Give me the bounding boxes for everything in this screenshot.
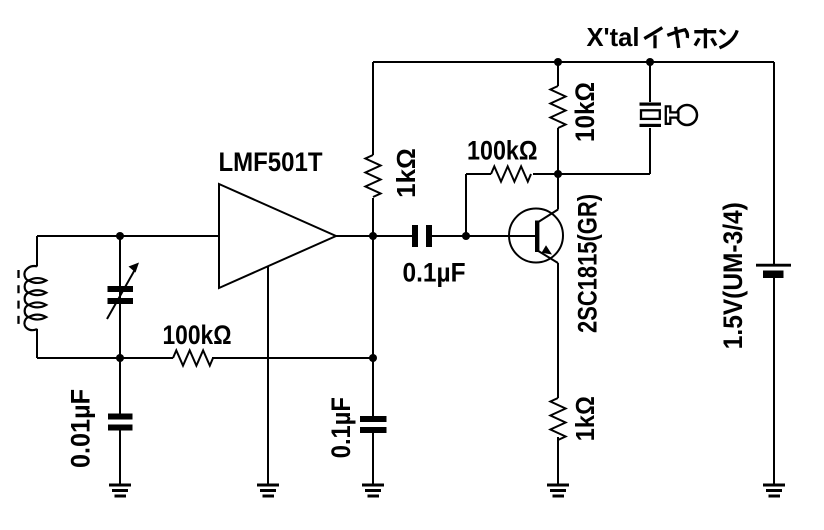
junction dot (120,358) (116, 354, 124, 362)
transistor Q1 base bar (535, 221, 539, 253)
variable capacitor VC1 plates (108, 286, 134, 292)
resistor R5 1kΩ (vertical at x=558) (550, 398, 565, 440)
svg-text:100kΩ: 100kΩ (163, 320, 232, 350)
wire collector (557, 174, 559, 210)
earphone earpiece stem (666, 106, 679, 123)
ground (120,484) (109, 484, 131, 498)
wire emitter down (557, 263, 559, 398)
wire 1k to ground (557, 437, 559, 486)
svg-text:0.1µF: 0.1µF (326, 397, 356, 458)
wire tank top (to amp input) (37, 235, 219, 237)
svg-text:1.5V(UM-3/4): 1.5V(UM-3/4) (718, 202, 748, 349)
wire tank bottom (37, 357, 173, 359)
capacitor C3 0.1µF bypass plates (360, 416, 387, 422)
ground (558,484) (547, 484, 569, 498)
resistor R4 10kΩ (vertical at x=558) (550, 86, 565, 128)
junction dot (650,62) (646, 58, 654, 66)
ground (373,484) (362, 484, 384, 498)
junction dot (120,236) (116, 232, 124, 240)
transistor Q1 emitter arrowhead (542, 245, 553, 254)
wire top bus left drop (to 1k resistor) (372, 62, 374, 155)
wire variable cap vertical (119, 236, 121, 358)
wire battery top (773, 62, 775, 264)
svg-text:100kΩ: 100kΩ (467, 136, 538, 166)
wire after coupling cap (432, 235, 536, 237)
svg-text:2SC1815(GR): 2SC1815(GR) (573, 194, 603, 333)
wire x=373 resistor to output node (372, 198, 374, 236)
inductor L1 loop 2 (29, 290, 47, 295)
variable capacitor VC1 arrow (107, 270, 135, 320)
resistor R1 1kΩ (vertical at x=373) (365, 155, 380, 197)
wire 100k right to earphone corner (533, 173, 650, 175)
resistor R3 100kΩ (horizontal at y=174) (466, 173, 491, 175)
wire battery bottom (773, 278, 775, 486)
wire top bus (373, 61, 774, 63)
wire C1 top (119, 358, 121, 414)
capacitor C2 0.1µF coupling plates (412, 225, 418, 247)
wire 100k to node (212, 357, 373, 359)
inductor L1 loop 1 (29, 278, 47, 283)
junction dot (373,236) (369, 232, 377, 240)
earphone crystal element bottom plate (640, 124, 662, 127)
wire tank left vertical top (36, 236, 38, 267)
ground (774,484) (763, 484, 785, 498)
wire x=373 output node down to lower node (372, 236, 374, 358)
inductor L1 loop 3 (29, 302, 47, 307)
junction dot (466,236) (462, 232, 470, 240)
label katakana i (644, 28, 662, 49)
wire amp ground pin (267, 267, 269, 487)
wire 10k bottom to node (557, 128, 559, 174)
wire node B up (465, 174, 467, 236)
capacitor C1 0.01µF plates (108, 414, 133, 420)
svg-text:10kΩ: 10kΩ (570, 82, 600, 142)
wire C1 bottom (119, 431, 121, 487)
earphone earpiece circle (677, 105, 697, 125)
svg-text:X'tal: X'tal (587, 22, 640, 52)
svg-text:0.01µF: 0.01µF (66, 389, 96, 468)
wire earphone bottom (649, 128, 651, 174)
label katakana ho (694, 28, 716, 48)
wire tank left vertical bottom (36, 329, 38, 358)
junction dot (373,358) (369, 354, 377, 362)
wire x=373 lower node to bypass cap (372, 358, 374, 416)
ferrite core dashed line (17, 270, 19, 330)
inductor L1 coil bumps (24, 266, 37, 330)
earphone crystal element rectangle (641, 110, 660, 119)
wire bypass cap to ground (372, 433, 374, 486)
junction dot (558,174) (554, 170, 562, 178)
battery BT1 long plate (756, 264, 791, 267)
resistor R2 100kΩ (horizontal at y=358) (173, 350, 213, 365)
svg-text:LMF501T: LMF501T (219, 147, 323, 177)
ground (268,484) (257, 484, 279, 498)
earphone crystal element top plate (640, 103, 662, 106)
svg-text:1kΩ: 1kΩ (391, 148, 421, 198)
battery BT1 short thick plate (763, 271, 784, 279)
transistor Q1 circle (509, 209, 563, 263)
inductor L1 loop 4 (29, 315, 47, 320)
label katakana n (720, 30, 738, 48)
wire amp output (336, 235, 412, 237)
junction dot (558,62) (554, 58, 562, 66)
label katakana ya (667, 27, 687, 48)
transistor Q1 emitter diagonal (538, 251, 559, 264)
op-amp U1 LMF501T triangle (219, 184, 336, 288)
svg-text:0.1µF: 0.1µF (403, 258, 466, 288)
wire 10k top (557, 62, 559, 86)
transistor Q1 collector diagonal (538, 210, 559, 223)
wire earphone top (649, 62, 651, 102)
svg-text:1kΩ: 1kΩ (570, 396, 600, 441)
